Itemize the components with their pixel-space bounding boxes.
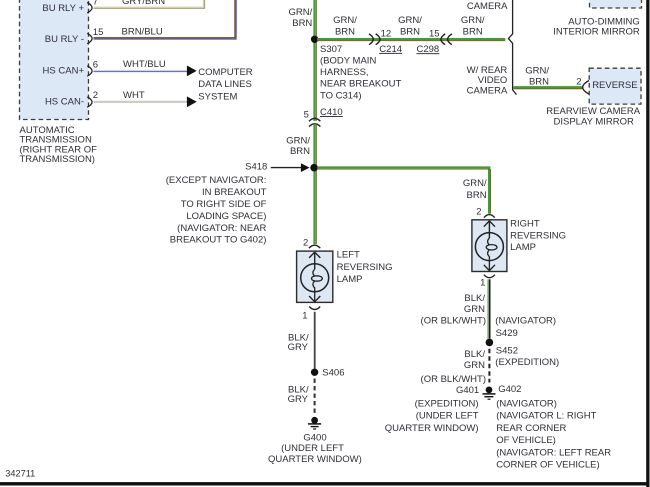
connector U1 automatic transmission dashed box — [20, 0, 89, 120]
svg-text:LOADING SPACE): LOADING SPACE) — [186, 211, 266, 222]
svg-text:OF VEHICLE): OF VEHICLE) — [496, 435, 556, 446]
svg-text:SYSTEM: SYSTEM — [198, 91, 237, 102]
wire label GRN/BRN (segment 2) — [398, 15, 422, 37]
svg-text:GRN/: GRN/ — [286, 135, 310, 146]
svg-text:LAMP: LAMP — [510, 242, 536, 253]
svg-text:(OR BLK/WHT): (OR BLK/WHT) — [421, 374, 486, 385]
svg-text:2: 2 — [476, 207, 481, 218]
svg-text:BRN/BLU: BRN/BLU — [122, 26, 163, 37]
svg-text:15: 15 — [429, 28, 440, 39]
svg-text:DISPLAY MIRROR: DISPLAY MIRROR — [553, 117, 634, 128]
wire label GRN/BRN (below C410) — [286, 135, 310, 157]
svg-text:(OR BLK/WHT): (OR BLK/WHT) — [421, 315, 486, 326]
wire GRN/BRN horizontal S307 to brace — [317, 39, 505, 41]
svg-text:INTERIOR MIRROR: INTERIOR MIRROR — [553, 27, 640, 38]
svg-text:5: 5 — [304, 110, 309, 121]
page border bottom — [0, 482, 650, 485]
wire label BLK/GRY lower — [288, 385, 309, 406]
wire label GRN/BRN (segment 3) — [461, 15, 485, 37]
svg-text:GRY: GRY — [288, 342, 309, 353]
wire label BLK/GRN (OR BLK/WHT) — [421, 293, 486, 326]
wire WHT/BLU (HS CAN+) — [94, 70, 188, 71]
svg-text:BLK/: BLK/ — [464, 293, 485, 304]
wire BLK/GRY solid (left lamp to S406) — [314, 312, 316, 370]
wire label GRN/BRN (right branch) — [463, 178, 487, 201]
svg-text:BU RLY +: BU RLY + — [42, 3, 84, 14]
svg-text:S406: S406 — [322, 368, 344, 379]
svg-text:WHT: WHT — [123, 90, 145, 101]
splice S406 dot — [311, 369, 318, 376]
svg-text:GRN/: GRN/ — [289, 7, 313, 18]
svg-text:BREAKOUT TO G402): BREAKOUT TO G402) — [170, 235, 267, 246]
svg-text:(NAVIGATOR: NEAR: (NAVIGATOR: NEAR — [177, 223, 266, 234]
wire BLK/GRY dashed (S406 to G400) — [314, 379, 316, 415]
svg-text:G402: G402 — [498, 384, 521, 395]
right reversing lamp connector arc top — [484, 215, 495, 218]
svg-text:GRY: GRY — [288, 394, 309, 405]
wire GRN/BRN branch S418 to right lamp — [317, 168, 490, 214]
svg-text:BRN: BRN — [467, 190, 487, 201]
svg-text:DATA LINES: DATA LINES — [198, 79, 252, 90]
wire label GRN/BRN (segment 1) — [333, 15, 357, 37]
svg-text:1: 1 — [480, 278, 485, 289]
svg-text:QUARTER WINDOW): QUARTER WINDOW) — [385, 423, 479, 434]
label (EXCEPT NAVIGATOR: ...) — [166, 175, 267, 246]
svg-text:S452: S452 — [496, 346, 518, 357]
svg-text:CAMERA: CAMERA — [467, 1, 508, 12]
wire GRN/BRN trunk lower (C410 to left lamp) — [315, 124, 317, 245]
svg-text:TO RIGHT SIDE OF: TO RIGHT SIDE OF — [181, 199, 267, 210]
ground G400 symbol — [308, 417, 321, 429]
svg-text:(NAVIGATOR L: RIGHT: (NAVIGATOR L: RIGHT — [496, 411, 596, 422]
svg-text:2: 2 — [93, 90, 98, 101]
connector auto-dimming mirror dashed box (cut off at top) — [590, 0, 642, 8]
svg-text:1: 1 — [302, 310, 307, 321]
svg-text:(EXPEDITION): (EXPEDITION) — [415, 398, 479, 409]
right reversing lamp box — [472, 220, 507, 272]
pin 7 symbol — [87, 3, 92, 13]
splice S418 dot — [310, 164, 318, 172]
svg-text:BRN: BRN — [290, 146, 310, 157]
svg-text:RIGHT: RIGHT — [510, 218, 540, 229]
svg-text:C410: C410 — [320, 107, 343, 118]
wire BLK/GRN dashed (S429 to G401/G402) — [488, 349, 490, 383]
label W/ REAR VIDEO CAMERA — [467, 65, 508, 97]
svg-text:(EXPEDITION): (EXPEDITION) — [495, 357, 559, 368]
svg-text:TRANSMISSION): TRANSMISSION) — [20, 154, 95, 165]
svg-text:QUARTER WINDOW): QUARTER WINDOW) — [268, 454, 362, 465]
svg-text:GRN: GRN — [464, 304, 485, 315]
svg-text:S307: S307 — [320, 44, 342, 55]
svg-text:GRN/: GRN/ — [398, 15, 422, 26]
svg-text:NEAR BREAKOUT: NEAR BREAKOUT — [320, 79, 401, 90]
label (EXPEDITION) (UNDER LEFT QUARTER WINDOW) — [385, 398, 479, 434]
label REARVIEW CAMERA DISPLAY MIRROR — [546, 106, 640, 128]
svg-text:GRN/: GRN/ — [463, 178, 487, 189]
wire GRY/BRN (BU RLY +) — [94, 0, 205, 8]
label RIGHT REVERSING LAMP — [510, 218, 566, 253]
svg-text:BLK/: BLK/ — [464, 349, 485, 360]
wire BRN/BLU (BU RLY -) — [94, 0, 237, 39]
svg-text:(NAVIGATOR): (NAVIGATOR) — [496, 398, 557, 409]
svg-text:12: 12 — [381, 28, 392, 39]
connector U1 caption AUTOMATIC TRANSMISSION — [20, 125, 98, 165]
svg-text:REVERSE: REVERSE — [592, 80, 637, 91]
svg-text:CORNER OF VEHICLE): CORNER OF VEHICLE) — [496, 460, 599, 471]
svg-text:(EXCEPT NAVIGATOR:: (EXCEPT NAVIGATOR: — [166, 175, 267, 186]
svg-text:REAR CORNER: REAR CORNER — [496, 423, 566, 434]
ground G401/G402 symbol — [483, 387, 496, 400]
svg-text:(NAVIGATOR): (NAVIGATOR) — [495, 316, 556, 327]
left reversing lamp connector arc top — [309, 245, 320, 248]
svg-text:GRN/: GRN/ — [525, 65, 549, 76]
label S418 with arrow — [245, 162, 309, 173]
wire GRN/BRN to reverse pin — [513, 87, 582, 89]
wire label GRN/BRN (top trunk) — [289, 7, 313, 29]
label COMPUTER DATA LINES SYSTEM — [198, 67, 253, 102]
svg-text:GRN: GRN — [464, 360, 485, 371]
pin symbol reverse — [583, 81, 589, 95]
label (NAVIGATOR) S429 — [495, 316, 556, 340]
svg-text:342711: 342711 — [5, 469, 35, 479]
svg-text:6: 6 — [93, 59, 98, 70]
off-page arrow to computer data lines (bottom) — [187, 96, 197, 107]
svg-text:BU RLY -: BU RLY - — [45, 34, 84, 45]
svg-text:GRN/: GRN/ — [461, 15, 485, 26]
svg-text:S418: S418 — [245, 162, 267, 173]
label AUTO-DIMMING INTERIOR MIRROR — [553, 16, 640, 37]
svg-text:BRN: BRN — [292, 18, 312, 29]
svg-text:(NAVIGATOR: LEFT REAR: (NAVIGATOR: LEFT REAR — [496, 447, 611, 458]
svg-text:15: 15 — [93, 27, 104, 38]
svg-text:(BODY MAIN: (BODY MAIN — [320, 56, 376, 67]
svg-text:LEFT: LEFT — [337, 250, 360, 261]
svg-text:(UNDER LEFT: (UNDER LEFT — [281, 443, 344, 454]
label S452 (EXPEDITION) — [495, 346, 559, 368]
connector C298 symbol — [441, 34, 452, 45]
svg-text:HS CAN+: HS CAN+ — [43, 65, 85, 76]
svg-text:C298: C298 — [417, 44, 440, 55]
label S307 (BODY MAIN HARNESS, NEAR BREAKOUT TO C314) — [320, 44, 401, 102]
svg-text:CAMERA: CAMERA — [467, 85, 508, 96]
svg-text:WHT/BLU: WHT/BLU — [123, 59, 166, 70]
svg-text:REVERSING: REVERSING — [510, 230, 566, 241]
page border right — [646, 0, 649, 487]
wire GRN/BRN trunk upper (top edge to C410) — [315, 0, 317, 121]
label LEFT REVERSING LAMP — [337, 250, 393, 285]
svg-text:S429: S429 — [496, 328, 518, 339]
connector C410 symbol — [309, 118, 320, 126]
wire WHT (HS CAN-) — [94, 101, 188, 103]
wire label BLK/GRN (OR BLK/WHT) lower — [421, 349, 486, 385]
wire label BLK/GRY upper — [288, 332, 309, 353]
svg-text:REARVIEW CAMERA: REARVIEW CAMERA — [546, 106, 640, 117]
svg-text:7: 7 — [93, 0, 98, 8]
splice S307 dot — [311, 36, 318, 43]
pin 2 symbol — [87, 97, 92, 107]
brace split to mirror options — [508, 0, 516, 95]
svg-text:IN BREAKOUT: IN BREAKOUT — [202, 187, 267, 198]
svg-text:BRN: BRN — [400, 27, 420, 38]
svg-text:(UNDER LEFT: (UNDER LEFT — [416, 411, 479, 422]
svg-text:BRN: BRN — [529, 77, 549, 88]
right reversing lamp connector arc bottom — [484, 275, 495, 278]
left reversing lamp box — [297, 251, 333, 302]
left reversing lamp connector arc bottom — [309, 307, 320, 310]
pin 6 symbol — [87, 66, 92, 76]
svg-text:REVERSING: REVERSING — [337, 262, 393, 273]
wire BLK/GRN solid (right lamp to S429) — [488, 279, 490, 338]
svg-text:COMPUTER: COMPUTER — [198, 67, 253, 78]
ground label G400 (UNDER LEFT QUARTER WINDOW) — [268, 433, 362, 465]
svg-text:GRY/BRN: GRY/BRN — [122, 0, 165, 7]
off-page arrow to computer data lines (top) — [187, 66, 197, 77]
svg-text:C214: C214 — [379, 44, 402, 55]
svg-text:GRN/: GRN/ — [333, 15, 357, 26]
svg-text:HARNESS,: HARNESS, — [320, 67, 369, 78]
pin 15 symbol — [87, 33, 92, 43]
splice S429 dot — [486, 339, 494, 347]
svg-text:2: 2 — [303, 238, 308, 249]
svg-text:HS CAN-: HS CAN- — [45, 96, 84, 107]
svg-text:LAMP: LAMP — [337, 274, 363, 285]
svg-text:BRN: BRN — [335, 27, 355, 38]
svg-text:G401: G401 — [456, 385, 479, 396]
connector C214 symbol — [369, 34, 380, 45]
wire label GRN/BRN (reverse) — [525, 65, 549, 87]
connector rearview camera display mirror dashed box — [589, 68, 641, 104]
svg-text:BRN: BRN — [463, 27, 483, 38]
svg-text:TO C314): TO C314) — [320, 90, 362, 101]
svg-text:2: 2 — [576, 77, 581, 88]
label (NAVIGATOR) G402 location — [496, 398, 611, 470]
